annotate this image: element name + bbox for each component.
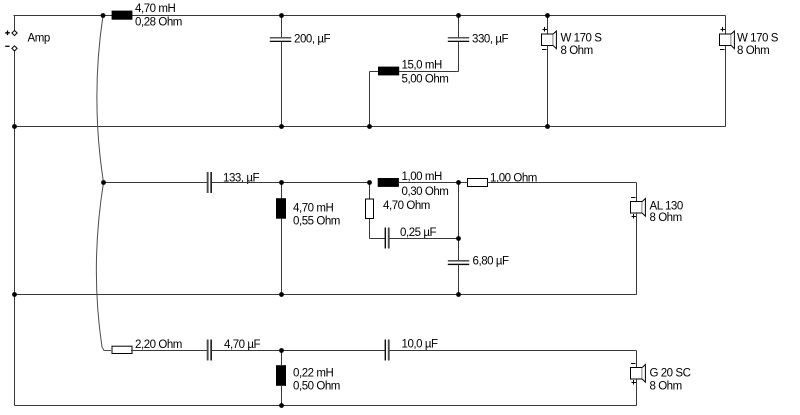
wire return bus mid section (15, 294, 637, 296)
inductor L2 15,0 mH (378, 67, 399, 76)
svg-text:8 Ohm: 8 Ohm (650, 380, 682, 392)
svg-text:Amp: Amp (28, 33, 50, 45)
inductor L4 1,00 mH (378, 178, 399, 187)
wire 200uF branch lower (281, 42, 283, 127)
svg-text:0,28 Ohm: 0,28 Ohm (135, 17, 182, 29)
svg-text:4,70 µF: 4,70 µF (224, 339, 261, 351)
svg-text:5,00 Ohm: 5,00 Ohm (402, 74, 449, 86)
wire curved arc mid junction to bottom branch (96, 183, 111, 351)
wire 4,70mH shunt upper (281, 183, 283, 199)
capacitor C2 330uF plates (448, 37, 469, 39)
wire G20SC drop (636, 351, 638, 368)
capacitor C3 133uF plates (207, 172, 209, 193)
svg-text:8 Ohm: 8 Ohm (650, 212, 682, 224)
wire 0,25uF to junction (389, 238, 459, 240)
svg-text:AL 130: AL 130 (650, 200, 683, 212)
svg-text:200, µF: 200, µF (294, 34, 331, 46)
speaker W 170 S second (720, 27, 735, 49)
wire R2 to AL130 corner (488, 182, 637, 184)
svg-text:6,80 µF: 6,80 µF (473, 256, 510, 268)
wire 15mH down to return bus (369, 72, 371, 127)
wire right edge (top bus to speaker W170S-2) (725, 16, 727, 35)
wire left edge top (plus terminal to top bus) (14, 16, 16, 31)
node 0,25uF junction (456, 236, 461, 241)
node bottom branch at 0,22mH (279, 348, 284, 353)
wire left edge (minus terminal down to bottom bus) (14, 51, 16, 406)
svg-text:0,55 Ohm: 0,55 Ohm (293, 215, 340, 227)
capacitor C4 0,25uF plates (385, 228, 386, 249)
wire 200uF branch upper (281, 16, 283, 38)
svg-text:0,25 µF: 0,25 µF (400, 227, 437, 239)
svg-text:15,0 mH: 15,0 mH (402, 60, 442, 72)
node return bus at speaker1 (545, 124, 550, 129)
resistor R1 4,70 Ohm vertical (369, 183, 371, 200)
node mid return left (12, 292, 17, 297)
svg-text:8 Ohm: 8 Ohm (737, 45, 769, 57)
svg-text:10,0 µF: 10,0 µF (402, 339, 439, 351)
inductor L3 4,70 mH vertical (276, 198, 286, 219)
node return bus at 15mH (367, 124, 372, 129)
node mid return at 6,80uF (456, 292, 461, 297)
svg-text:0,22 mH: 0,22 mH (293, 367, 333, 379)
node mid branch at 6,80uF (456, 180, 461, 185)
speaker AL 130 (631, 198, 646, 219)
wire speaker1 branch lower (547, 46, 549, 127)
node bottom bus at 0,22mH (279, 403, 284, 408)
svg-text:4,70 Ohm: 4,70 Ohm (383, 200, 430, 212)
svg-text:4,70 mH: 4,70 mH (135, 3, 175, 15)
wire 6,80uF branch lower (458, 265, 460, 295)
node top bus at arc (101, 13, 106, 18)
wire 10uF to G20SC corner (389, 350, 637, 352)
node mid branch at R1 (367, 180, 372, 185)
wire horizontal to 15mH inductor (370, 71, 459, 73)
node mid branch at 4,70mH (279, 180, 284, 185)
wire junction to R2 (459, 182, 468, 184)
minus sign amp (5, 45, 9, 47)
speaker G 20 SC (631, 364, 646, 385)
wire AL130 lower (636, 213, 638, 295)
wire bottom bus (15, 405, 637, 407)
wire 330uF branch lower to corner (458, 42, 460, 72)
node mid branch at arc (101, 180, 106, 185)
wire 4,70uF to junction (212, 350, 282, 352)
resistor R2 1,00 Ohm (468, 179, 488, 187)
inductor L5 0,22 mH vertical (276, 365, 286, 386)
svg-text:1,00 mH: 1,00 mH (402, 171, 442, 183)
svg-text:W 170 S: W 170 S (737, 33, 779, 45)
wire G20SC lower (636, 379, 638, 406)
wire R1 lower (369, 219, 371, 239)
capacitor C5 6,80uF plates (448, 260, 469, 262)
wire mid branch left (104, 182, 208, 184)
svg-text:W 170 S: W 170 S (561, 33, 603, 45)
plus sign amp (5, 31, 10, 36)
wire mid branch cap to junction (212, 182, 370, 184)
svg-text:4,70 mH: 4,70 mH (293, 202, 333, 214)
svg-text:0,30 Ohm: 0,30 Ohm (402, 186, 449, 198)
node terminal minus (12, 46, 17, 51)
node return bus left (12, 124, 17, 129)
capacitor C1 200uF plates (270, 37, 291, 39)
wire speaker1 branch upper (547, 16, 549, 35)
svg-text:0,50 Ohm: 0,50 Ohm (293, 380, 340, 392)
node top bus at 330uF (456, 13, 461, 18)
capacitor C6 4,70uF plates (207, 340, 209, 361)
node top bus at 200uF (279, 13, 284, 18)
node terminal plus (12, 30, 17, 35)
svg-text:8 Ohm: 8 Ohm (561, 45, 593, 57)
wire 4,70mH shunt lower (281, 219, 283, 295)
wire 0,22mH shunt upper (281, 351, 283, 366)
svg-text:2,20 Ohm: 2,20 Ohm (135, 339, 182, 351)
wire curved arc top junction to mid junction (97, 16, 104, 183)
wire 6,80uF branch upper (458, 183, 460, 261)
node top bus at speaker1 (545, 13, 550, 18)
inductor L1 4,70 mH (112, 11, 133, 20)
svg-text:G 20 SC: G 20 SC (650, 367, 691, 379)
wire R3 to 4,70uF (131, 350, 208, 352)
wire top bus (14, 15, 726, 17)
wire R1 to 0,25uF cap (370, 238, 386, 240)
node mid return at 4,70mH (279, 292, 284, 297)
wire right edge (speaker W170S-2 to return bus) (725, 46, 727, 127)
wire junction to 10uF (282, 350, 386, 352)
wire AL130 drop (636, 183, 638, 202)
wire between L4 and junction (399, 182, 459, 184)
wire 0,22mH shunt lower (281, 386, 283, 406)
speaker W 170 S first (542, 27, 557, 49)
svg-text:330, µF: 330, µF (472, 34, 509, 46)
wire return bus top section (15, 126, 726, 128)
capacitor C7 10,0uF plates (385, 340, 386, 361)
wire 330uF branch upper (458, 16, 460, 38)
node return bus at 200uF (279, 124, 284, 129)
resistor R3 2,20 Ohm (112, 346, 132, 353)
